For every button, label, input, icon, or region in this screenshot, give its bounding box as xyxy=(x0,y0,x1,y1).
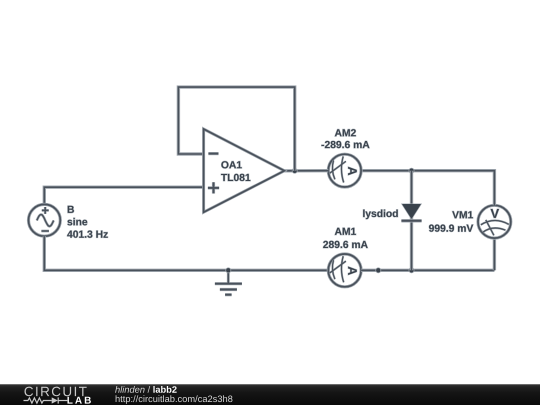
ammeter AM1 letter A xyxy=(348,267,357,275)
ammeter AM1 xyxy=(328,254,361,287)
wire from AM1 to bottom-right corner xyxy=(361,269,494,272)
CircuitLab logo diode symbol xyxy=(52,397,68,403)
wire net from B+ to op-amp non-inverting input xyxy=(44,187,203,204)
voltage source B xyxy=(29,204,61,236)
voltmeter VM1 letter V xyxy=(491,209,500,218)
label VM1 name xyxy=(452,211,473,218)
label VM1 reading xyxy=(429,225,473,232)
wire from B- down along bottom net to AM1 xyxy=(44,236,328,270)
label AM2 name xyxy=(335,129,356,136)
ground xyxy=(215,270,242,294)
voltmeter VM1 xyxy=(478,205,511,238)
node at diode cathode junction xyxy=(409,267,415,273)
node at op-amp output xyxy=(292,168,298,174)
label AM2 reading xyxy=(321,141,369,148)
label source B name xyxy=(68,206,74,213)
wire from op-amp output to AM2 xyxy=(284,169,328,173)
footer title hlinden / labb2 xyxy=(115,386,177,393)
op-amp OA1 xyxy=(204,129,285,212)
ammeter AM2 letter A xyxy=(348,167,357,175)
wire from voltmeter top to top-right corner and left to AM2 xyxy=(361,171,494,206)
node on bottom wire xyxy=(375,267,381,273)
label diode lysdiod xyxy=(363,210,398,220)
diode lysdiod xyxy=(401,171,421,271)
CircuitLab logo wordmark LAB xyxy=(67,397,90,404)
node at ground junction xyxy=(225,267,231,273)
CircuitLab logo resistor symbol xyxy=(24,398,52,403)
node at diode anode junction xyxy=(409,168,415,174)
feedback wire from output to inverting input xyxy=(178,87,294,171)
label op-amp OA1 name xyxy=(221,161,241,168)
CircuitLab logo wordmark CIRCUIT xyxy=(24,387,86,397)
ammeter AM2 xyxy=(328,154,361,187)
label AM1 reading xyxy=(323,241,368,248)
label op-amp OA1 model TL081 xyxy=(221,174,250,181)
label AM1 name xyxy=(335,228,356,235)
wire right side from bottom corner up to voltmeter xyxy=(493,238,496,270)
footer url xyxy=(116,395,233,404)
label source B type sine xyxy=(67,218,87,226)
label source B frequency xyxy=(67,231,108,238)
